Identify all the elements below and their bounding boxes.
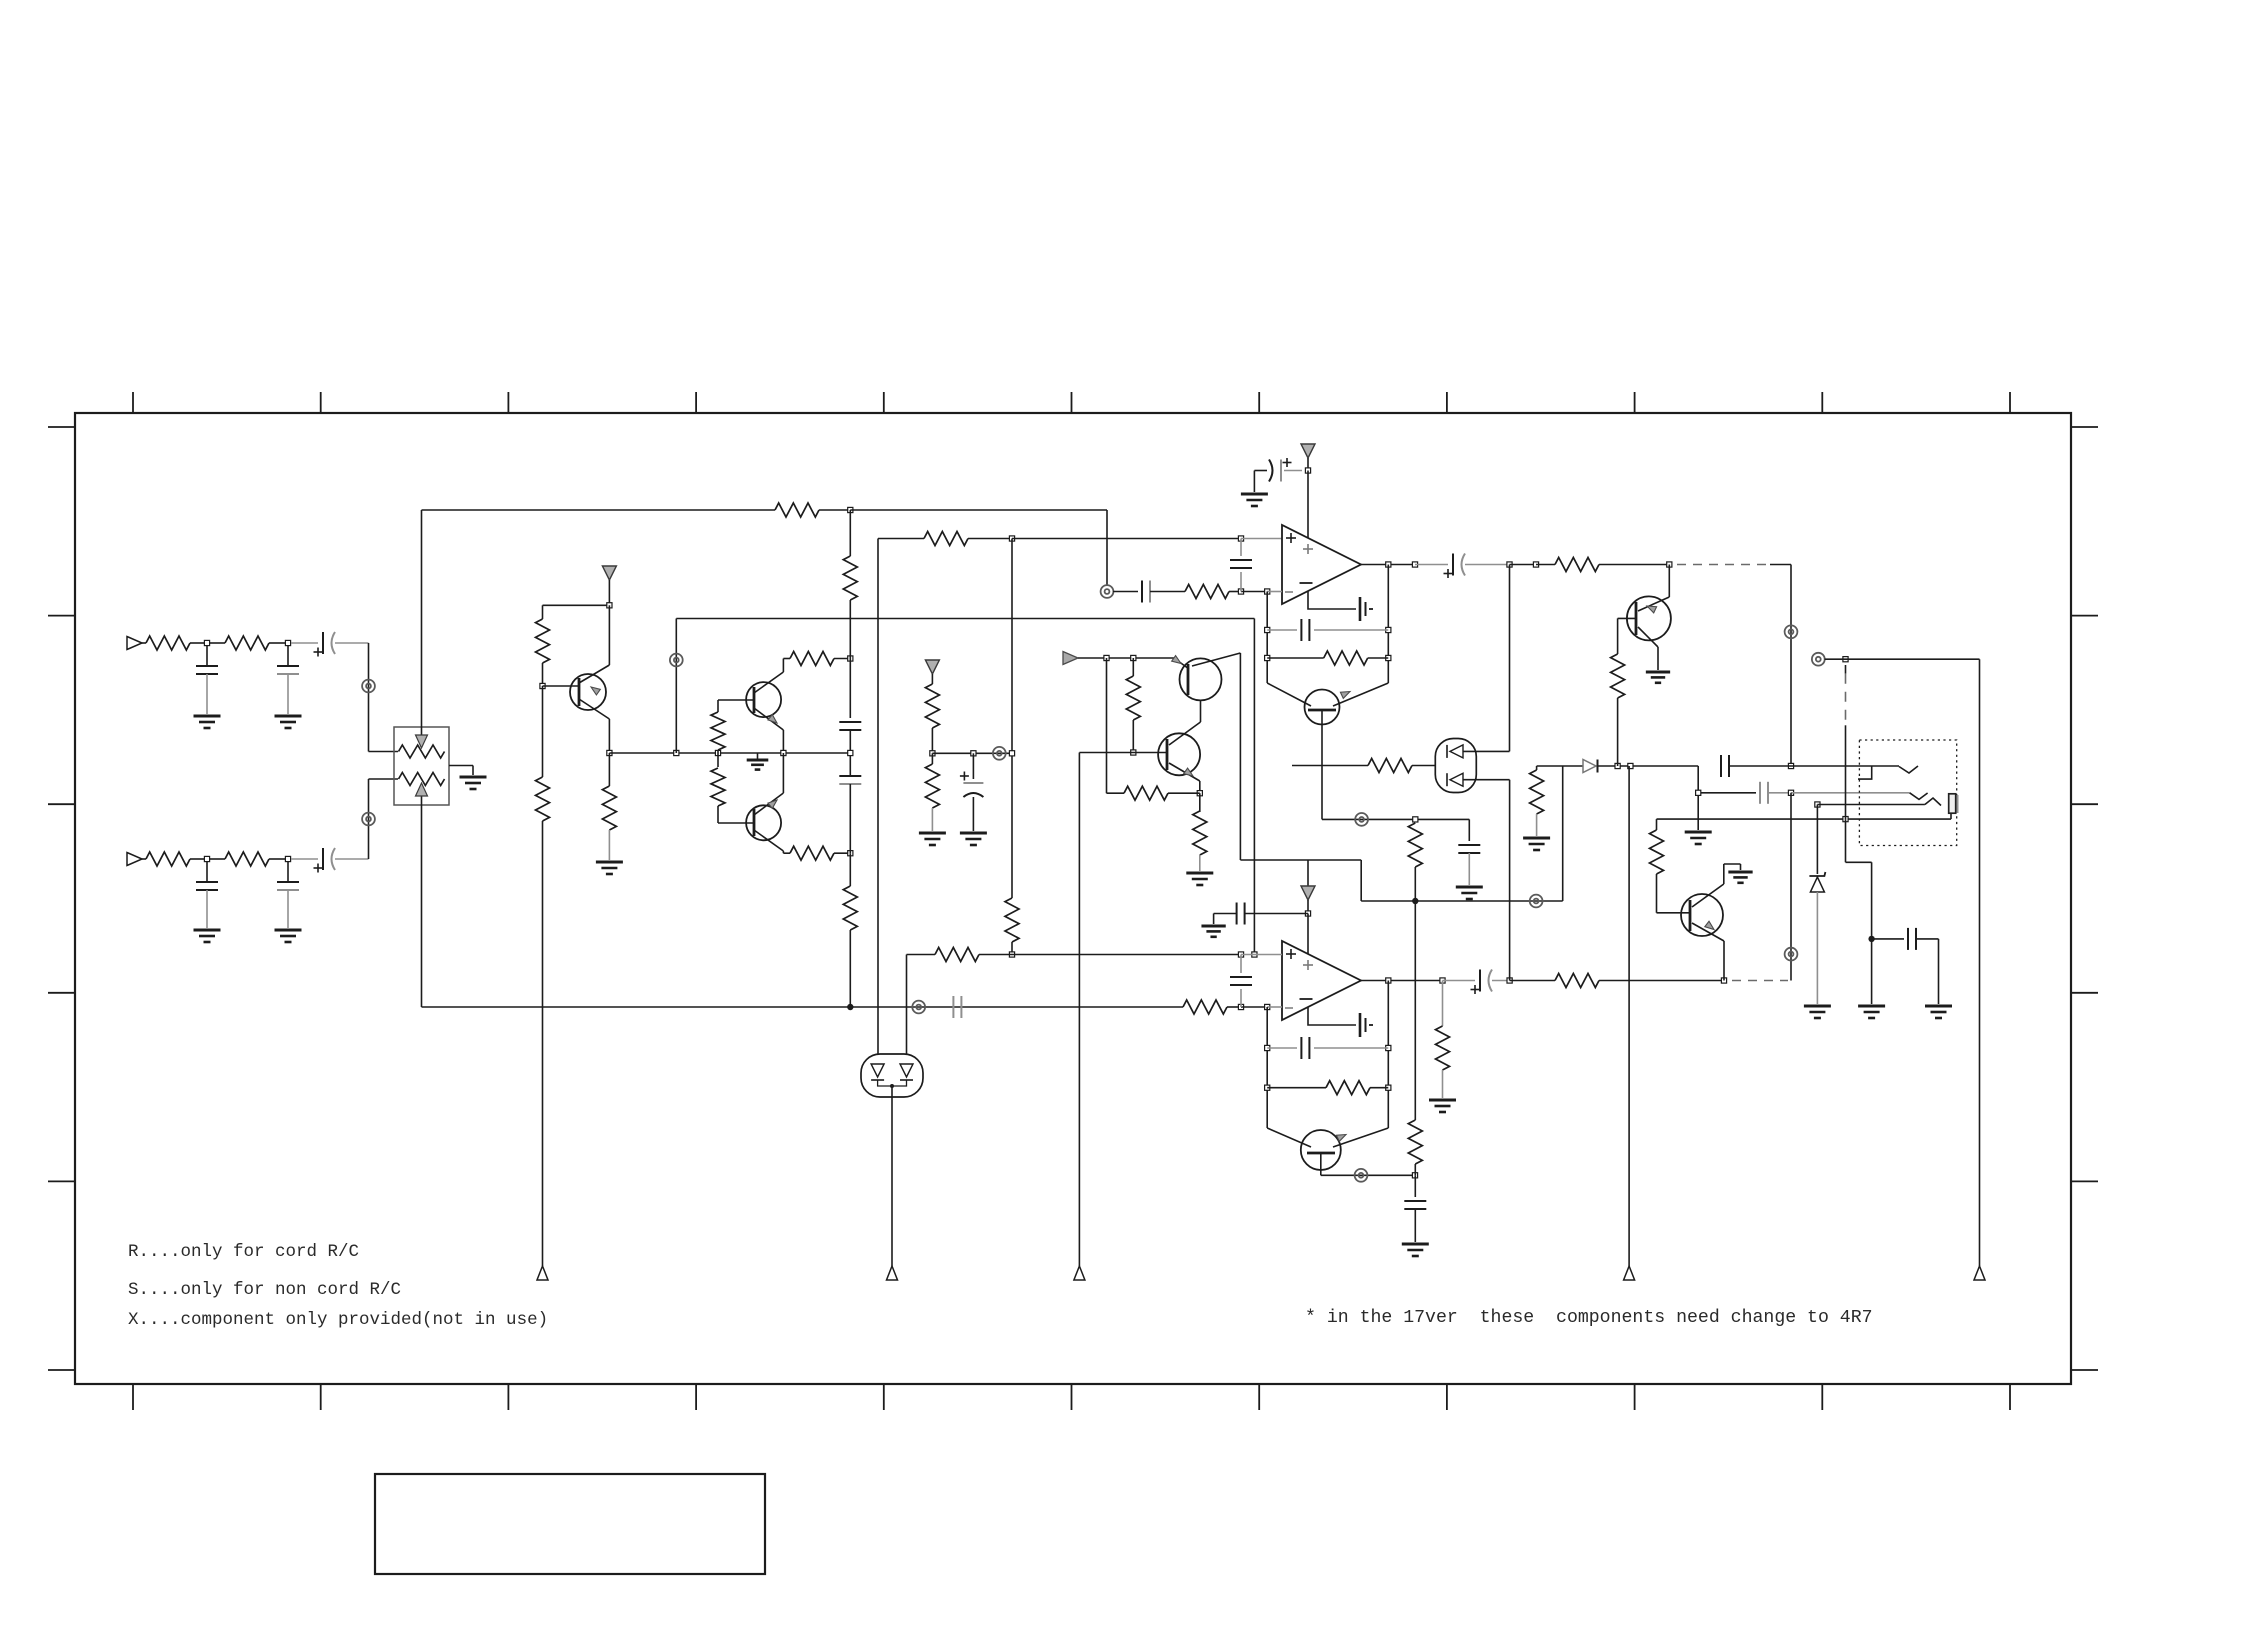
wire	[1227, 1006, 1241, 1008]
connector node	[1355, 1169, 1368, 1182]
node junction	[1009, 536, 1014, 541]
resistor R29	[1183, 1000, 1227, 1014]
wire rail from wiper A	[422, 509, 776, 511]
resistor R37 (Q10 base)	[1656, 819, 1658, 830]
capacitor C1 to ground	[206, 646, 208, 666]
node junction	[781, 750, 786, 755]
title block rectangle	[375, 1474, 765, 1574]
ground	[919, 832, 946, 835]
wire riser to test point	[1628, 766, 1630, 1266]
ground	[1402, 1243, 1429, 1246]
svg-text:S....only for non cord R/C: S....only for non cord R/C	[128, 1280, 401, 1300]
input connector IN1 (arrow)	[127, 637, 142, 650]
ruler tick marks bottom edge	[132, 1384, 134, 1410]
wire	[542, 663, 544, 686]
node junction (dot)	[1868, 936, 1874, 942]
wire	[1509, 565, 1511, 752]
feedback network U1A	[1387, 565, 1389, 684]
node junction	[1788, 763, 1793, 768]
node junction (dot)	[1412, 898, 1418, 904]
wire stage output riser	[675, 619, 677, 754]
capacitor C9 (electrolytic) to ground	[972, 753, 974, 779]
pot wiper B (arrow)	[421, 795, 423, 1007]
connector node	[362, 813, 375, 826]
input arrow (from prev stage)	[1063, 652, 1078, 665]
capacitor C4 to ground	[287, 862, 289, 882]
node junction	[285, 856, 290, 861]
wire column x1012	[1011, 539, 1013, 899]
wire	[834, 658, 850, 660]
diode D2	[1583, 760, 1596, 773]
transistor Q3	[746, 805, 781, 840]
capacitor C17	[952, 996, 954, 1018]
ruler tick marks right edge	[2071, 426, 2098, 428]
ground	[1925, 1005, 1952, 1008]
power flag V+ (U1A)	[1301, 444, 1315, 458]
wire riser to diode row	[1562, 766, 1564, 901]
wire	[291, 858, 318, 860]
wire diode row left end + resistor R35 to ground	[1537, 765, 1583, 767]
wire cap row 2 (left channel to jack)	[1698, 792, 1756, 794]
wire row y618.5 to opamp2 +input column	[676, 618, 1254, 620]
wire	[849, 853, 851, 886]
resistor R3	[225, 636, 269, 650]
resistor R27 (emitter)	[1199, 793, 1201, 812]
wire	[1770, 564, 1791, 566]
transistor Q4	[1174, 658, 1189, 669]
connector node	[1785, 948, 1798, 961]
wire	[1307, 458, 1309, 471]
resistor R2	[146, 852, 190, 866]
ground symbol at U1A bottom pin	[1308, 591, 1356, 609]
node junction	[1131, 655, 1136, 660]
wire jack row 4 (sleeve)	[1657, 818, 1952, 820]
wire Q4 collector down	[1239, 653, 1241, 860]
ground	[1804, 1005, 1831, 1008]
jack contact 2	[1910, 793, 1928, 800]
wire	[1599, 564, 1669, 566]
wire	[1267, 1006, 1282, 1008]
node junction	[1721, 978, 1726, 983]
wire cap row 1 (right channel to jack)	[1697, 766, 1699, 830]
node junction	[1507, 978, 1512, 983]
wire	[1510, 564, 1537, 566]
capacitor C6 (polarized)	[322, 848, 324, 870]
wire	[1241, 954, 1282, 956]
wire riser oval-bottom to U1B output	[1509, 780, 1511, 981]
wire	[1168, 792, 1200, 794]
wire (dashed)	[1677, 564, 1770, 566]
connector node	[670, 654, 683, 667]
transistor Q6	[1079, 752, 1167, 754]
wire output loop top	[1825, 658, 1980, 660]
ground symbol at U1B bottom pin	[1308, 1007, 1356, 1025]
ground	[194, 715, 221, 718]
capacitor C12 across inputs	[1240, 539, 1242, 557]
capacitor C23	[1759, 782, 1761, 804]
wire	[1011, 942, 1013, 955]
resistor R38	[935, 948, 979, 962]
wire	[849, 930, 851, 1007]
capacitor C3 to ground	[287, 646, 289, 666]
wire -input row U1B (from pot wiper B)	[422, 1006, 1184, 1008]
node junction	[930, 751, 935, 756]
resistor R5	[775, 503, 819, 517]
wire	[1253, 471, 1255, 493]
node junction	[1305, 911, 1310, 916]
node junction	[1507, 562, 1512, 567]
resistor R24 feedback	[1267, 657, 1324, 659]
wire	[210, 642, 225, 644]
ground	[275, 929, 302, 932]
capacitor C18 across inputs	[1240, 955, 1242, 974]
wire row y753.3	[932, 752, 1012, 754]
resistor R12	[536, 777, 550, 821]
wire	[834, 852, 850, 854]
wire supply pin U1B	[1307, 914, 1309, 955]
feedback network U1B	[1387, 981, 1389, 1129]
wire Q7 to row	[1320, 1153, 1322, 1175]
resistor R16 (Q3 base)	[717, 753, 719, 767]
test point	[1074, 1266, 1085, 1280]
wire Q5 to bias row	[1321, 710, 1323, 819]
ground	[1685, 831, 1712, 834]
node junction	[1238, 1004, 1243, 1009]
transistor Q8	[1618, 617, 1636, 619]
connector node	[912, 1001, 925, 1014]
resistor R9	[1005, 898, 1019, 942]
connector node	[993, 747, 1006, 760]
wire +input row U1B	[1012, 954, 1241, 956]
wire column x1415 lower	[1414, 901, 1416, 1120]
wire	[1598, 765, 1699, 767]
wire bias row y819	[1322, 818, 1469, 820]
wire	[269, 642, 285, 644]
resistor R32 to ground	[1442, 981, 1444, 1027]
node junction	[1788, 790, 1793, 795]
node junction	[1265, 589, 1270, 594]
wire	[850, 509, 1107, 511]
potentiometer element B	[399, 773, 445, 786]
capacitor C11 input	[1113, 591, 1138, 593]
wire column x1106.5	[1106, 658, 1108, 793]
jack contact 1	[1791, 765, 1899, 767]
wire U1B output row	[1361, 980, 1443, 982]
node junction	[285, 640, 290, 645]
wire U1A output row	[1361, 564, 1414, 566]
wire dashed sense riser	[1843, 657, 1848, 662]
resistor R14 (Q2 base)	[717, 700, 719, 712]
node junction	[1667, 562, 1672, 567]
potentiometer element A	[399, 745, 445, 758]
wire	[190, 642, 204, 644]
node junction	[848, 507, 853, 512]
resistor R31 feedback	[1267, 1087, 1326, 1089]
ground	[460, 776, 487, 779]
wire	[931, 674, 933, 684]
wire	[335, 642, 369, 644]
node junction	[1252, 952, 1257, 957]
capacitor C15 to ground	[1468, 819, 1470, 841]
wire	[369, 778, 399, 780]
node junction	[1131, 750, 1136, 755]
wire down to headphone cap row	[1790, 565, 1792, 767]
test point S	[887, 1266, 898, 1280]
wire	[1510, 980, 1555, 982]
wire	[1253, 619, 1255, 955]
wire	[1791, 792, 1910, 794]
wire	[1078, 657, 1174, 659]
wire	[291, 642, 318, 644]
transistor Q5 (bias)	[1267, 683, 1311, 706]
node junction	[1265, 1004, 1270, 1009]
transistor Q2	[746, 682, 781, 717]
sheet border frame	[75, 413, 2071, 1384]
wire row y1175	[1321, 1174, 1415, 1176]
power flag V+ (Q1)	[602, 566, 616, 580]
ruler tick marks top edge	[132, 392, 134, 413]
resistor R19	[843, 886, 857, 930]
resistor R36 (Q8 base)	[1617, 618, 1619, 654]
wire row y901	[1361, 900, 1563, 902]
wire Q4 collector row to V-	[1240, 859, 1361, 861]
wire diode commons	[878, 1080, 907, 1086]
dual diode D3 (oval horizontal)	[861, 1054, 923, 1097]
test point	[1974, 1266, 1985, 1280]
node junction	[204, 856, 209, 861]
wire	[1443, 980, 1476, 982]
node junction	[1533, 562, 1538, 567]
connector node	[362, 680, 375, 693]
capacitor C13 (polarized) output	[1452, 554, 1454, 576]
resistor R28	[1408, 823, 1422, 867]
node junction (dot)	[847, 1004, 853, 1010]
node junction	[848, 656, 853, 661]
wire	[1241, 1006, 1267, 1008]
wire	[849, 600, 851, 718]
ruler tick marks left edge	[48, 426, 75, 428]
transistor Q10 (jack detect)	[1657, 912, 1691, 914]
capacitor C8	[839, 775, 861, 777]
resistor R21	[931, 753, 933, 764]
ground	[1456, 886, 1483, 889]
node junction	[204, 640, 209, 645]
wire rail 2	[877, 539, 879, 1055]
wire oval to output riser (bottom)	[1463, 779, 1510, 781]
emitter row y753	[607, 750, 612, 755]
wire	[783, 658, 790, 660]
wire	[335, 858, 369, 860]
resistor R17 (Q3 collector)	[790, 846, 834, 860]
wire	[1415, 564, 1448, 566]
dual diode D1 (oval)	[1435, 739, 1476, 793]
test point	[1624, 1266, 1635, 1280]
resistor R26	[1124, 786, 1168, 800]
wire to +pin	[1241, 538, 1282, 540]
ground	[1858, 1005, 1885, 1008]
wire	[849, 784, 851, 853]
wire	[142, 858, 146, 860]
wire -pin	[1267, 591, 1282, 593]
wire	[783, 852, 790, 854]
ground	[960, 832, 987, 835]
node junction	[1413, 817, 1418, 822]
op-amp U1A	[1282, 525, 1361, 604]
power flag V+ (bias)	[925, 660, 939, 674]
capacitor C19 (polarized) output	[1479, 970, 1481, 992]
node junction	[674, 750, 679, 755]
headphone jack (dotted outline)	[1859, 740, 1956, 846]
node junction	[1238, 952, 1243, 957]
resistor R22	[1185, 585, 1229, 599]
resistor R1	[146, 636, 190, 650]
ground	[275, 715, 302, 718]
wire	[1465, 564, 1510, 566]
svg-text:* in the 17ver these compone: * in the 17ver these components need cha…	[1305, 1308, 1873, 1328]
connector node	[1785, 625, 1798, 638]
ground	[1646, 671, 1670, 674]
wire oval to output riser (top)	[1463, 750, 1510, 752]
node junction	[1238, 536, 1243, 541]
capacitor C7	[839, 721, 861, 723]
pot wiper A (arrow)	[421, 510, 423, 737]
wire	[1150, 591, 1185, 593]
wire	[1360, 860, 1362, 901]
node junction	[607, 603, 612, 608]
wire	[1536, 564, 1555, 566]
connector node	[1355, 813, 1368, 826]
node junction	[848, 851, 853, 856]
capacitor C2 to ground	[206, 862, 208, 882]
wire	[849, 510, 851, 556]
node junction	[1440, 978, 1445, 983]
connector node	[1101, 585, 1114, 598]
node junction	[1238, 589, 1243, 594]
wire	[142, 642, 146, 644]
capacitor C21 to ground	[1414, 1175, 1416, 1197]
wire base feed riser to test point	[1078, 753, 1080, 1267]
op-amp U1B	[1282, 941, 1361, 1020]
capacitor C22	[1720, 755, 1722, 777]
wire	[1229, 591, 1241, 593]
wire	[608, 580, 610, 605]
node junction	[1386, 978, 1391, 983]
connector node (output loop)	[1812, 653, 1825, 666]
wire to volume pot top	[368, 643, 370, 752]
resistor R13	[608, 753, 610, 786]
wire	[819, 509, 850, 511]
wire pot common to ground	[449, 765, 473, 767]
input connector IN2 (arrow)	[127, 853, 142, 866]
node junction	[1009, 952, 1014, 957]
capacitor C20 feedback	[1267, 1047, 1297, 1049]
resistor R20	[925, 684, 939, 728]
resistor R15 (Q2 collector)	[790, 652, 834, 666]
capacitor C14 feedback	[1267, 629, 1297, 631]
transistor Q1	[570, 674, 606, 710]
node junction	[1412, 562, 1417, 567]
node junction	[1197, 791, 1202, 796]
ground stub on row	[757, 753, 759, 759]
wire output loop right side to test point	[1979, 659, 1981, 1266]
wire down to connector	[1106, 510, 1108, 585]
node junction	[971, 751, 976, 756]
resistor R11	[536, 619, 550, 663]
node junction	[715, 750, 720, 755]
power flag V- (U2A)	[1307, 860, 1309, 886]
wire jack row 3 (ring sense)	[1815, 802, 1820, 807]
wire	[931, 728, 933, 753]
wire supply pin	[1307, 471, 1309, 539]
node junction	[848, 750, 853, 755]
ground	[194, 929, 221, 932]
wire	[1492, 980, 1510, 982]
wire riser left-channel output	[1790, 793, 1792, 981]
wire (dashed)	[1732, 980, 1788, 982]
wire top of Q1 bias column	[543, 604, 610, 606]
capacitor C10 (polarized) supply decoupling	[1254, 470, 1267, 472]
svg-text:R....only for cord R/C: R....only for cord R/C	[128, 1242, 359, 1262]
resistor R33	[1408, 1120, 1422, 1164]
node junction	[1628, 763, 1633, 768]
wire to volume pot bottom	[368, 779, 370, 859]
wire	[369, 751, 399, 753]
wire	[608, 605, 610, 665]
wire	[1599, 980, 1724, 982]
ground	[1728, 871, 1752, 874]
wire	[1241, 591, 1267, 593]
node junction	[1615, 763, 1620, 768]
resistor R30	[1555, 974, 1599, 988]
node junction	[1009, 751, 1014, 756]
resistor R7	[924, 532, 968, 546]
ground	[1241, 493, 1268, 496]
ground	[1201, 925, 1225, 928]
resistor R18	[843, 556, 857, 600]
resistor R25 (x1133)	[1132, 658, 1134, 676]
resistor R4	[225, 852, 269, 866]
resistor R34 to diode pair	[1292, 765, 1368, 767]
wire right diode to +input row	[906, 955, 908, 1055]
wire	[210, 858, 225, 860]
ground	[1186, 872, 1213, 875]
wire	[849, 730, 851, 776]
jack tip terminal	[1949, 794, 1956, 813]
ground	[596, 861, 623, 864]
ground	[1429, 1099, 1456, 1102]
wire	[1012, 538, 1241, 540]
node junction	[540, 683, 545, 688]
node junction	[1412, 1173, 1417, 1178]
connector node	[1530, 895, 1543, 908]
test point	[537, 1266, 548, 1280]
capacitor C16 supply to ground	[1245, 913, 1308, 915]
node junction	[1386, 562, 1391, 567]
node junction	[1305, 468, 1310, 473]
wire down to test point	[542, 821, 544, 1266]
capacitor C5 (polarized)	[322, 632, 324, 654]
wire	[542, 686, 544, 777]
wire to S test point	[891, 1086, 893, 1266]
resistor R23	[1555, 558, 1599, 572]
transistor Q7 (bias)	[1267, 1128, 1311, 1147]
svg-text:X....component only provided(n: X....component only provided(not in use)	[128, 1310, 548, 1330]
capacitor C24 branch	[1872, 938, 1904, 940]
node junction	[1104, 655, 1109, 660]
wire	[968, 538, 1012, 540]
wire	[269, 858, 285, 860]
wire	[190, 858, 204, 860]
